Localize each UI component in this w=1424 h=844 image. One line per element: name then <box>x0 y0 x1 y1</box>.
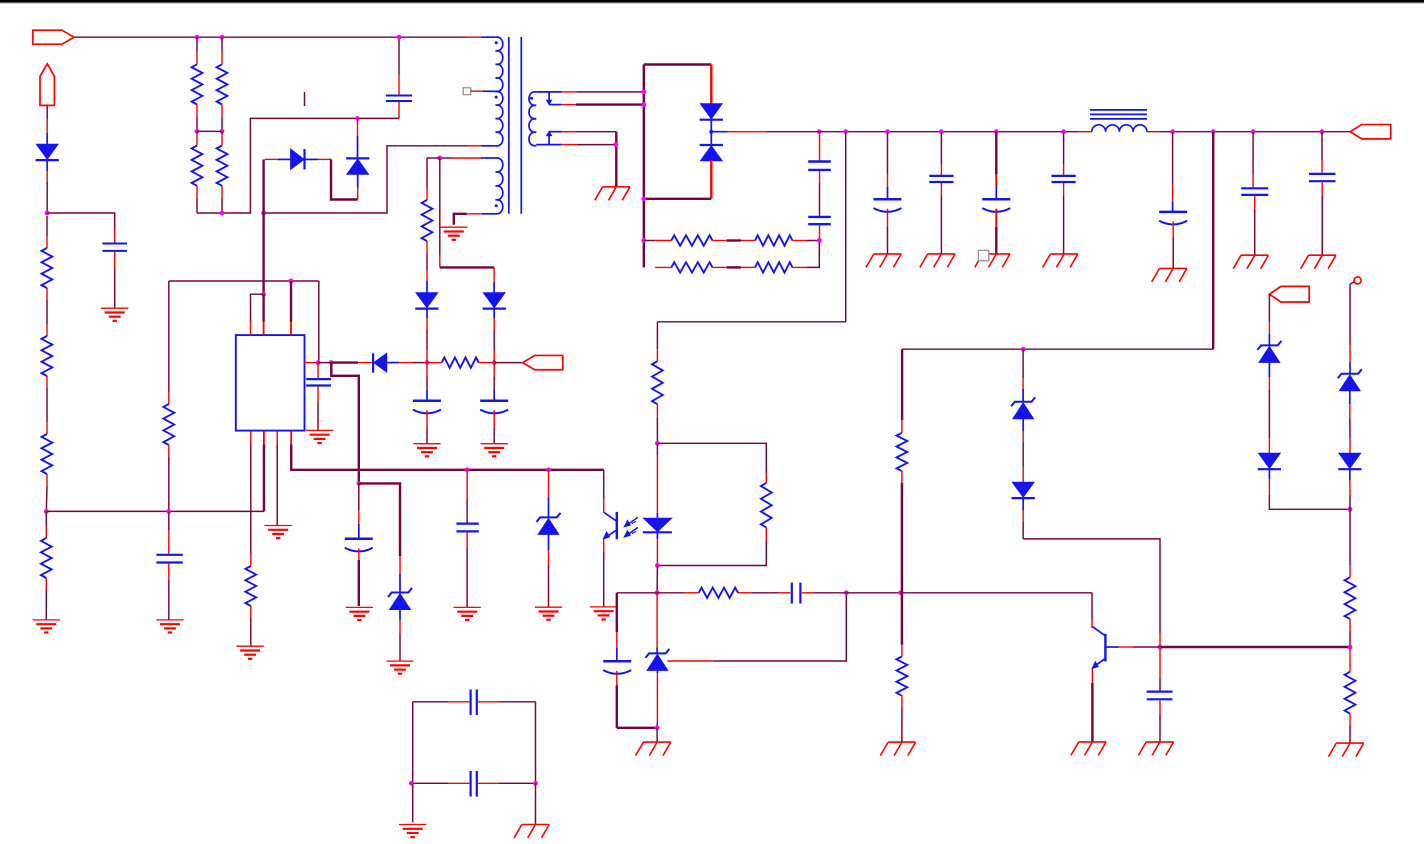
node junction x222 y213 <box>220 211 225 216</box>
node junction x1350 y647 <box>1348 645 1353 650</box>
capacitor C8 <box>1063 132 1065 164</box>
wire port P2 to diode D1 <box>46 105 48 119</box>
node junction x263 y294 <box>261 292 266 297</box>
wire Q1 base <box>1107 646 1119 648</box>
node junction bridge right <box>533 781 538 786</box>
capacitor C12 <box>168 511 170 530</box>
ground chassis Q1 <box>1079 741 1106 743</box>
node junction x900 y592 <box>898 590 903 595</box>
top window border bar <box>0 0 1424 3</box>
node junction x819 rail <box>817 129 822 134</box>
zener Z2 <box>548 470 550 497</box>
wire y511 horizontal <box>46 510 264 512</box>
node junction x657 y592 <box>655 590 660 595</box>
transformer secondary pin 1 <box>536 91 562 93</box>
wire row2 right return <box>807 241 820 268</box>
node junction x197 top rail <box>195 35 200 40</box>
port P2 vertical <box>40 64 54 106</box>
ground chassis R23 <box>1336 742 1363 744</box>
wire IC pin2 stub <box>262 294 264 321</box>
transformer T1 primary winding 2 <box>496 91 503 145</box>
resistor R18 <box>765 474 767 483</box>
diode D4 pair <box>710 65 712 104</box>
wire x318 drop <box>318 281 320 363</box>
inductor L1 <box>1078 131 1092 133</box>
node junction rail x1063 <box>1061 129 1066 134</box>
node junction rail x1322 <box>1320 129 1325 134</box>
ground earth C17 <box>454 606 481 608</box>
transformer secondary pin 2 <box>549 104 562 106</box>
zener Z3 <box>1022 349 1024 378</box>
transformer T1 secondary winding <box>529 92 536 146</box>
wire rectifier bus <box>643 65 645 268</box>
optocoupler U3 phototransistor <box>616 512 618 539</box>
transformer polarity dot secondary <box>530 97 533 100</box>
ground earth R4 <box>33 619 60 621</box>
wire output rail <box>711 131 727 133</box>
resistor R3 <box>46 388 48 422</box>
node junction x1350 y509 <box>1348 507 1353 512</box>
resistor R13 <box>656 322 658 349</box>
ground earth C12 <box>156 619 183 621</box>
wire D1 to node <box>46 171 48 182</box>
node junction x846 y592 <box>844 590 849 595</box>
wire zener chain to Q1 base node <box>1023 539 1160 634</box>
node junction bus y198 <box>641 196 646 201</box>
transformer T1 aux winding <box>496 158 503 214</box>
capacitor C13 <box>317 363 319 380</box>
transformer T1 primary winding 1 <box>496 37 503 91</box>
transformer secondary tap connector 2 <box>548 135 550 145</box>
wire x1213 drop <box>1212 132 1214 350</box>
node junction x494 y362 <box>492 360 497 365</box>
wire y592 to Q1 collector <box>846 592 900 594</box>
node junction rail x845 <box>843 129 848 134</box>
ground earth phototransistor <box>590 606 617 608</box>
node junction rail x887 <box>885 129 890 134</box>
capacitor C3 snubber top <box>819 133 821 161</box>
node junction x1160 y647 <box>1158 645 1163 650</box>
transformer T1 aux pin bottom <box>467 213 482 215</box>
resistor R5 <box>196 37 198 51</box>
wire IC pin1 stub <box>251 294 264 321</box>
optocoupler LED D8 <box>656 443 658 455</box>
capacitor C21 top <box>413 701 448 703</box>
resistor R12 <box>741 266 755 268</box>
no-connect marker square <box>463 88 471 95</box>
wire x845 feedback drop <box>657 132 845 322</box>
diode D6 <box>426 270 428 281</box>
TL431 U4 <box>656 593 658 648</box>
diode D2 horizontal <box>265 158 278 160</box>
ground earth C14 <box>413 443 440 445</box>
capacitor C16 polar <box>358 483 360 510</box>
transformer T1 primary pin bottom <box>467 145 482 147</box>
ground chassis C7 <box>983 253 1010 255</box>
resistor R6 <box>221 37 223 51</box>
wire phototransistor collector <box>603 470 605 499</box>
diode D1 <box>46 133 48 144</box>
IC U1 box <box>236 335 305 431</box>
wire IC pin8 bottom <box>290 431 292 445</box>
node junction x819 y240 <box>817 238 822 243</box>
transformer T1 aux pin top <box>440 157 452 159</box>
wire rectifier bottom <box>644 198 712 200</box>
ground chassis C9 <box>1160 267 1187 269</box>
node junction x168 y511 <box>166 509 171 514</box>
ground chassis R21 <box>888 741 915 743</box>
node junction x358 y483 <box>356 481 361 486</box>
node junction x318 y362 <box>316 360 321 365</box>
wire y592 compensation <box>657 592 685 594</box>
resistor R8 <box>221 131 223 133</box>
resistor R19 <box>699 588 738 598</box>
diode D9 <box>1022 467 1024 482</box>
wire TL431 ground stem <box>656 728 658 742</box>
wire x168 column <box>168 281 170 392</box>
ground chassis C6 <box>928 253 955 255</box>
wire C18 bottom return <box>617 727 657 729</box>
ground earth R17 <box>237 645 264 647</box>
node junction x1023 y349 <box>1021 347 1026 352</box>
wire node to C1 <box>47 213 115 228</box>
wire secondary common to ground <box>615 132 617 187</box>
node junction x467 y469 <box>465 467 470 472</box>
ground earth bridge <box>399 824 426 826</box>
node junction x357 y118 <box>355 116 360 121</box>
node junction x222 y131 <box>220 129 225 134</box>
wire x358 to x400 <box>359 483 400 556</box>
ground chassis TL431 <box>643 741 670 743</box>
resistor R21 <box>901 593 903 645</box>
port P3 output <box>1350 125 1391 139</box>
transformer polarity dot 2 <box>495 96 498 99</box>
capacitor C9 polar <box>1172 132 1174 185</box>
capacitor C15 polar <box>493 363 495 377</box>
node junction rail x1253 <box>1251 129 1256 134</box>
diode D7 <box>493 282 495 293</box>
marker square C7 ground <box>978 250 989 260</box>
node junction x399 top rail <box>397 35 402 40</box>
ground earth C1 <box>101 307 128 309</box>
wire y362 feedback <box>318 362 331 364</box>
ground earth Z2 <box>535 606 562 608</box>
wire top input rail <box>74 36 467 38</box>
diode D5 feedback <box>372 353 374 372</box>
ground chassis C20 <box>1146 741 1173 743</box>
resistor R22 <box>1349 509 1351 565</box>
wire x439 to D5 chain <box>439 158 441 255</box>
ground earth C13 <box>306 429 333 431</box>
wire y349 horizontal <box>902 348 1213 350</box>
capacitor C20 <box>1159 647 1161 677</box>
ground chassis C11 <box>1309 254 1336 256</box>
ground chassis C10 <box>1241 254 1268 256</box>
capacitor C10 <box>1252 132 1254 175</box>
terminal circle <box>1354 277 1361 284</box>
ground chassis bridge <box>522 824 549 826</box>
IC U1 right pin <box>305 362 319 364</box>
wire bridge left ground stem <box>412 783 414 822</box>
ground chassis C8 <box>1051 253 1078 255</box>
port P1 AC input <box>33 30 74 44</box>
node junction x427 y362 <box>425 360 430 365</box>
node junction x548 y469 <box>546 467 551 472</box>
node junction x615 y144 <box>613 142 618 147</box>
node junction x331 y362 <box>329 360 334 365</box>
ground earth Z1 <box>386 660 413 662</box>
ground earth aux winding <box>440 226 467 228</box>
ground earth C15 <box>481 443 508 445</box>
node junction bridge left <box>409 781 414 786</box>
resistor R14 <box>168 392 170 404</box>
node junction x657 y565 <box>655 563 660 568</box>
wire Q1 emitter <box>1091 669 1093 684</box>
capacitor C22 bottom <box>413 782 448 784</box>
transformer polarity dot 3 <box>495 204 498 207</box>
capacitor C5 polar <box>887 132 889 174</box>
wire y281 horizontal <box>169 280 319 282</box>
diode D10 <box>1268 438 1270 453</box>
capacitor C6 <box>940 132 942 164</box>
resistor R20 <box>901 420 903 433</box>
transformer T1 core <box>508 37 510 214</box>
transformer T1 primary pin top <box>467 36 482 38</box>
ground earth C16 <box>346 606 373 608</box>
node junction x657 y443 <box>655 441 660 446</box>
resistor R17 <box>250 554 252 566</box>
node junction x263 y213 <box>261 211 266 216</box>
resistor R1 <box>46 216 48 236</box>
transistor Q1 <box>1104 634 1106 662</box>
wire branch join <box>1269 495 1350 510</box>
node junction rail x1172 <box>1170 129 1175 134</box>
resistor R11 <box>655 266 671 268</box>
capacitor C11 <box>1321 132 1323 160</box>
ground chassis C5 <box>874 253 901 255</box>
node junction rail x1213 <box>1211 129 1216 134</box>
wire thick x263 vertical <box>262 160 264 295</box>
node junction x222 top rail <box>220 35 225 40</box>
wire Q1 collector <box>1091 593 1093 619</box>
node junction bus y91 <box>641 90 646 95</box>
node junction bus y240 <box>641 238 646 243</box>
port P4 feedback <box>494 362 523 364</box>
capacitor C14 polar <box>426 363 428 377</box>
ground earth IC pin7 <box>265 525 292 527</box>
node junction bus y104 <box>641 102 646 107</box>
wire y213 segment <box>197 118 399 213</box>
capacitor C7 polar <box>995 132 997 174</box>
wire IC pin5 bottom <box>250 431 252 445</box>
wire x657 to y592 node <box>656 566 658 593</box>
resistor R23 <box>1349 647 1351 660</box>
wire IC pin7 bottom <box>276 431 278 445</box>
wire LED bias loop <box>657 443 766 474</box>
ground chassis secondary <box>603 186 630 188</box>
resistor R4 <box>45 511 47 526</box>
optocoupler light arrows <box>627 517 638 525</box>
transformer secondary tap connector 1 <box>548 92 550 101</box>
transformer T1 mid tap pin <box>471 90 483 92</box>
wire bridge right ground stem <box>535 783 537 824</box>
node junction x439 y158 <box>437 156 442 161</box>
resistor R16 <box>426 188 428 200</box>
node junction x46 y511 <box>44 509 49 514</box>
wire x358 jog <box>331 363 359 484</box>
node junction x197 y131 <box>195 129 200 134</box>
node junction rail x941 <box>939 129 944 134</box>
capacitor C19 series <box>778 592 790 594</box>
wire y469 horizontal <box>291 445 604 470</box>
node junction x657 y727 <box>655 725 660 730</box>
port P5 <box>1269 286 1309 302</box>
diode D11 <box>1349 438 1351 453</box>
wire IC pin3 top <box>290 281 292 322</box>
zener Z4 <box>1268 294 1270 322</box>
wire aux to ground <box>454 214 467 225</box>
capacitor C18 polar <box>617 592 657 594</box>
capacitor C17 <box>466 470 468 499</box>
transformer secondary pin 4 <box>536 144 562 146</box>
resistor R9 <box>644 240 655 242</box>
wire y131 connector <box>197 130 222 132</box>
transformer secondary pin 3 <box>549 131 562 133</box>
diode D3 vertical up <box>357 118 359 136</box>
resistor R7 <box>196 131 198 133</box>
transformer polarity dot 1 <box>495 41 498 44</box>
resistor R2 <box>46 300 48 324</box>
zener Z1 <box>399 556 401 574</box>
wire y213 to transformer return <box>264 146 467 213</box>
node junction x47 y213 <box>45 211 50 216</box>
wire dangling segment <box>304 92 306 106</box>
wire bridge right side <box>535 702 537 784</box>
wire IC pin6 bottom <box>263 431 265 445</box>
inductor L1 core lines <box>1090 109 1147 111</box>
wire x902 down <box>901 349 903 420</box>
capacitor C2 <box>398 37 400 75</box>
wire thick U under D2 D3 <box>331 159 358 199</box>
resistor R15 <box>427 362 442 364</box>
capacitor C1 <box>114 228 116 243</box>
wire phototransistor emitter <box>603 539 605 552</box>
zener Z5 <box>1349 284 1351 345</box>
wire rectifier top <box>644 63 712 65</box>
wire Q1 base node to right <box>1160 646 1350 648</box>
TL431 reference wire <box>667 660 713 662</box>
wire bridge left side <box>412 702 414 784</box>
resistor R10 <box>741 240 755 242</box>
node junction rail x996 <box>994 129 999 134</box>
capacitor C4 snubber bottom <box>808 216 831 218</box>
wire loop return <box>657 541 766 566</box>
node junction x291 y281 <box>289 279 294 284</box>
wire x427 chain top <box>427 157 440 159</box>
